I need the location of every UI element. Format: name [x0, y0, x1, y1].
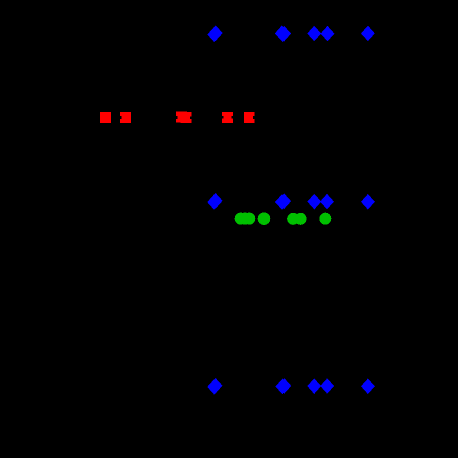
black notch overdraw on squares — [120, 116, 255, 119]
point D-C1 (double) — [207, 379, 221, 395]
point S-5 — [244, 112, 255, 123]
point D-B3 — [307, 194, 321, 210]
notch S-3 left — [176, 116, 178, 119]
point D-B1 (double) — [207, 194, 221, 210]
point D-C3 — [307, 378, 321, 394]
point D-C4 — [320, 378, 334, 394]
green circle series row — [235, 212, 332, 225]
point S-1 — [100, 112, 111, 123]
point G-2 — [258, 212, 271, 225]
point D-A2 (triple overlap) — [275, 26, 289, 42]
notch S-4 left — [222, 116, 224, 119]
notch S-5 right — [253, 116, 254, 119]
point D-A1 (double) — [207, 27, 221, 43]
point D-A3 — [307, 26, 321, 42]
point D-A4 — [321, 26, 335, 42]
point D-B2 (double) — [275, 194, 289, 210]
blue diamond series, middle row — [207, 193, 375, 210]
red square series row — [100, 112, 255, 124]
blue diamond series, bottom row — [207, 378, 375, 395]
notch S-2 left — [120, 116, 121, 119]
blue diamond series, top row — [207, 25, 374, 42]
point D-B4 — [320, 194, 334, 210]
notch S-3 right — [190, 116, 192, 119]
point G-1 (overlapping pill of three) — [235, 213, 247, 225]
point S-3 (double) — [176, 112, 187, 123]
point D-C5 — [361, 379, 375, 395]
point G-4 — [319, 213, 331, 225]
point G-3 (double pill) — [287, 213, 299, 225]
point D-C2 (double) — [275, 379, 289, 395]
point S-4 — [222, 112, 233, 123]
point D-A5 — [361, 26, 375, 42]
point D-B5 — [361, 194, 375, 210]
notch S-4 right — [232, 116, 233, 119]
point S-2 — [120, 112, 131, 123]
